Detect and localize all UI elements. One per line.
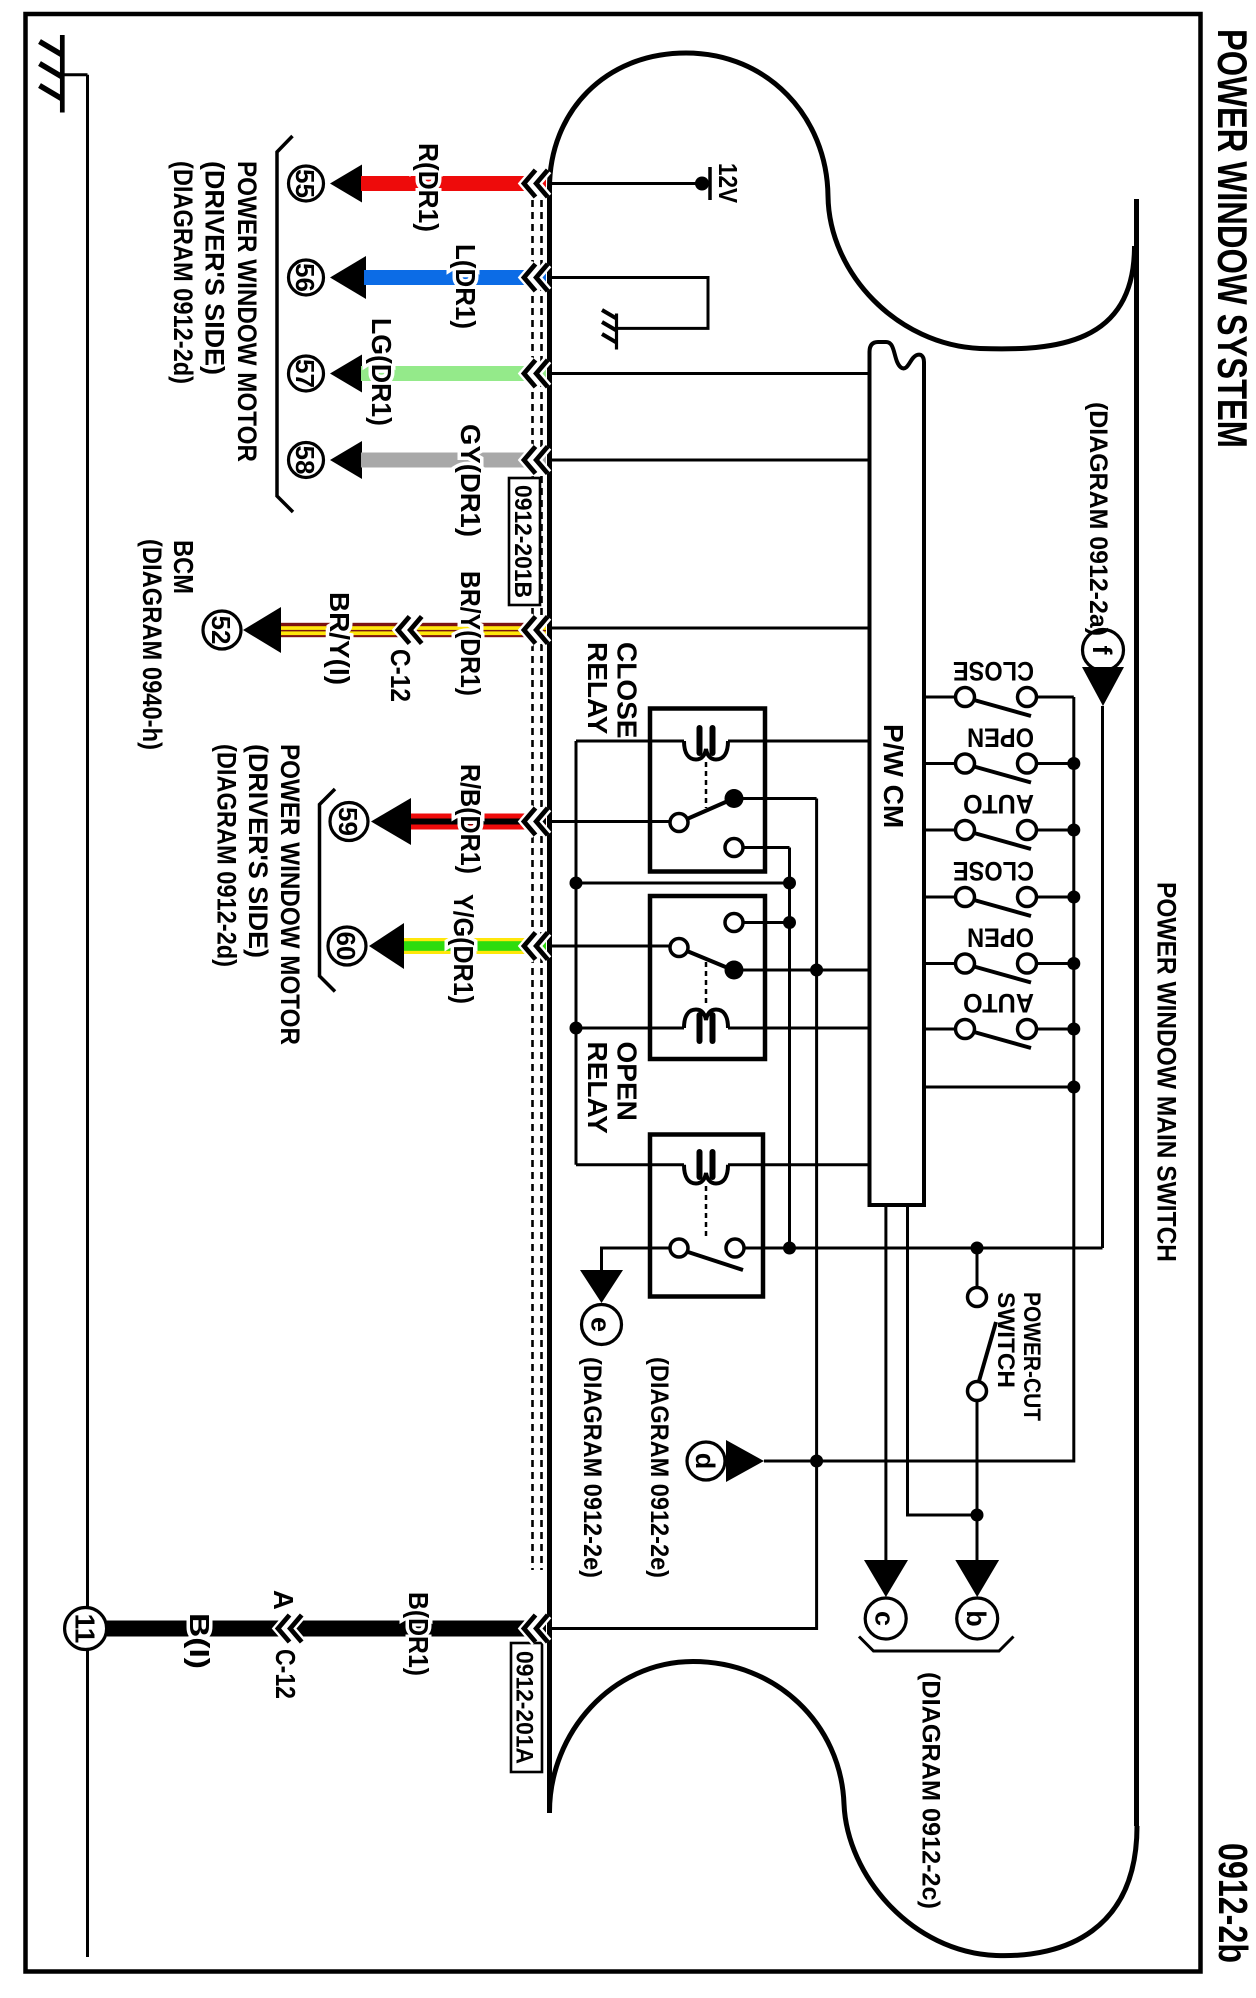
- svg-text:c: c: [870, 1611, 900, 1626]
- wire BR/Y: [281, 623, 546, 637]
- svg-text:(DIAGRAM 0912-2a): (DIAGRAM 0912-2a): [1084, 402, 1112, 636]
- open relay upper contact: [725, 914, 743, 932]
- svg-text:BCM: BCM: [168, 540, 199, 594]
- open relay lever: [687, 951, 728, 968]
- top-left ground symbol: [40, 35, 63, 113]
- wire LG(DR1): [361, 366, 546, 381]
- svg-text:OPEN: OPEN: [967, 923, 1034, 953]
- close relay lever: [687, 801, 728, 819]
- svg-text:BR/Y(I): BR/Y(I): [324, 592, 355, 685]
- open relay coil: [684, 1010, 728, 1029]
- wire R/B: [411, 814, 546, 830]
- svg-text:b: b: [961, 1610, 991, 1627]
- close relay NO lead: [743, 797, 817, 800]
- svg-text:57: 57: [290, 359, 320, 388]
- connector 59: [330, 803, 368, 841]
- svg-text:LG(DR1): LG(DR1): [366, 318, 397, 426]
- wire 58 line to P/W CM: [551, 459, 870, 462]
- ground wire down left side: [62, 73, 88, 76]
- open relay NO contact: [725, 961, 744, 980]
- svg-text:(DIAGRAM 0912-2d): (DIAGRAM 0912-2d): [168, 161, 198, 384]
- svg-text:60: 60: [331, 932, 361, 961]
- circle 11: [65, 1608, 107, 1650]
- svg-text:R/B(DR1): R/B(DR1): [455, 764, 486, 874]
- svg-text:POWER WINDOW MOTOR: POWER WINDOW MOTOR: [275, 744, 305, 1045]
- svg-text:POWER WINDOW MAIN SWITCH: POWER WINDOW MAIN SWITCH: [1152, 882, 1182, 1262]
- third relay left contact: [670, 1239, 688, 1257]
- chevron 56: [524, 264, 548, 291]
- connector 56: [289, 260, 324, 295]
- wire Y/G: [404, 938, 546, 954]
- circle b: [957, 1598, 998, 1639]
- connector 60: [328, 927, 366, 965]
- arrow d: [726, 1440, 764, 1482]
- box 0912-201A: [511, 1643, 542, 1772]
- chevron 58: [524, 447, 548, 474]
- switch CLOSE 1: [924, 656, 1074, 716]
- svg-text:BR/Y(DR1): BR/Y(DR1): [455, 571, 486, 696]
- circle d: [687, 1442, 725, 1480]
- third relay coil: [684, 1165, 728, 1184]
- junction dot: [570, 1022, 583, 1035]
- chevron 59: [524, 808, 548, 835]
- open relay common contact: [670, 939, 688, 957]
- open relay NO lead: [743, 969, 870, 972]
- junction dot d line: [810, 1455, 823, 1468]
- svg-text:AUTO: AUTO: [963, 789, 1034, 819]
- wire L(DR1): [364, 270, 546, 285]
- P/W CM output line 2: [908, 1205, 978, 1515]
- chevron B(DR1) connector: [524, 1615, 548, 1642]
- circle f: [1083, 630, 1124, 671]
- arrow 59: [371, 798, 411, 845]
- svg-text:C-12: C-12: [270, 1649, 301, 1699]
- P/W CM box: [870, 342, 925, 1205]
- svg-text:B(DR1): B(DR1): [403, 1592, 434, 1676]
- svg-text:CLOSE: CLOSE: [953, 656, 1034, 686]
- connector 55: [289, 166, 324, 201]
- wire GY(DR1): [361, 453, 546, 468]
- arrow f: [1082, 667, 1124, 706]
- chevron 60: [524, 933, 548, 960]
- svg-text:RELAY: RELAY: [582, 1042, 613, 1135]
- connector 57: [289, 356, 324, 391]
- arrow 56: [330, 256, 366, 299]
- relay coil bus vertical: [575, 741, 578, 1165]
- third relay box: [650, 1135, 763, 1297]
- chevron 55: [524, 170, 548, 197]
- svg-text:(DIAGRAM 0940-h): (DIAGRAM 0940-h): [137, 539, 167, 750]
- arrow e: [580, 1270, 623, 1303]
- svg-text:A: A: [268, 1590, 299, 1610]
- svg-text:55: 55: [290, 169, 320, 198]
- wire 57 line to P/W CM: [551, 372, 870, 375]
- ground return line B(DR1) internal: [551, 799, 817, 1629]
- connector 52: [203, 611, 241, 649]
- close relay NO contact: [725, 789, 744, 808]
- close relay link dashed: [705, 762, 708, 808]
- close relay NC lead: [743, 846, 790, 849]
- main switch outline right edge: [1134, 199, 1139, 1826]
- open relay box: [650, 896, 765, 1059]
- arrow 60: [369, 923, 404, 969]
- third relay lever: [688, 1252, 743, 1270]
- junction dot: [570, 877, 583, 890]
- wire 52 line to P/W CM: [551, 627, 870, 630]
- third relay right lead / f line horizontal: [744, 1247, 1103, 1250]
- bracket motor 59-60: [320, 789, 336, 992]
- connector dashed line 0912-201: [533, 176, 542, 1570]
- svg-text:P/W CM: P/W CM: [878, 724, 909, 828]
- wire 60 line to open relay common: [551, 945, 670, 948]
- chevron 52 connector: [524, 617, 548, 644]
- switch OPEN 1: [924, 723, 1074, 783]
- svg-text:e: e: [586, 1317, 616, 1332]
- arrow c: [864, 1560, 908, 1597]
- close relay NC contact: [725, 839, 743, 857]
- close relay common contact: [670, 814, 688, 832]
- internal ground symbol: [602, 310, 617, 350]
- third relay coil leads: [576, 1163, 684, 1166]
- svg-text:RELAY: RELAY: [582, 642, 613, 735]
- power-cut switch: [976, 1248, 979, 1288]
- svg-text:C-12: C-12: [385, 649, 416, 702]
- svg-text:R(DR1): R(DR1): [413, 143, 444, 232]
- third relay right contact: [726, 1239, 744, 1257]
- close relay box: [650, 709, 765, 872]
- junction dot: [783, 1242, 796, 1255]
- arrow 55: [330, 165, 362, 203]
- svg-text:59: 59: [333, 807, 363, 836]
- 12V terminal: [695, 177, 709, 191]
- wire B ground: [107, 1621, 546, 1637]
- svg-text:d: d: [690, 1453, 720, 1470]
- bus junction dots: [1067, 757, 1080, 770]
- connector 58: [289, 443, 324, 478]
- switch AUTO 2: [924, 988, 1074, 1048]
- circle e: [582, 1305, 622, 1345]
- svg-text:11: 11: [70, 1614, 101, 1644]
- svg-text:OPEN: OPEN: [967, 723, 1034, 753]
- wire L(DR1) to internal ground: [551, 278, 708, 329]
- bracket motor 55-58: [277, 136, 293, 512]
- svg-text:SWITCH: SWITCH: [992, 1292, 1019, 1388]
- chevron C-12 row52: [398, 617, 422, 644]
- svg-text:f: f: [1087, 646, 1117, 656]
- close relay coil leads: [576, 740, 684, 743]
- open relay link dashed: [705, 962, 708, 1006]
- svg-text:GY(DR1): GY(DR1): [455, 424, 486, 537]
- svg-text:(DIAGRAM 0912-2d): (DIAGRAM 0912-2d): [212, 744, 242, 967]
- chevron 57: [524, 360, 548, 387]
- svg-text:56: 56: [290, 263, 320, 292]
- right bus: [764, 697, 1074, 1461]
- svg-text:CLOSE: CLOSE: [612, 642, 643, 738]
- junction dot: [783, 877, 796, 890]
- svg-text:(DRIVER'S SIDE): (DRIVER'S SIDE): [200, 161, 230, 375]
- svg-text:POWER WINDOW MOTOR: POWER WINDOW MOTOR: [232, 161, 262, 462]
- switch OPEN 2: [924, 923, 1074, 983]
- arrow 52: [243, 607, 281, 653]
- arrow 57: [330, 355, 362, 393]
- arrow b: [955, 1560, 999, 1597]
- box 0912-201B: [509, 478, 540, 605]
- svg-text:0912-201B: 0912-201B: [509, 485, 536, 598]
- arrow 58: [330, 441, 362, 479]
- svg-text:AUTO: AUTO: [963, 988, 1034, 1018]
- third relay left lead to arrow e: [602, 1248, 671, 1272]
- svg-text:POWER WINDOW SYSTEM: POWER WINDOW SYSTEM: [1209, 29, 1256, 448]
- main switch outline left edge: [547, 186, 552, 1813]
- f line vertical: [1101, 706, 1104, 1248]
- svg-text:(DRIVER'S SIDE): (DRIVER'S SIDE): [243, 744, 273, 958]
- svg-text:Y/G(DR1): Y/G(DR1): [448, 894, 479, 1004]
- third relay link dashed: [705, 1186, 708, 1240]
- main switch outline top torn curve: [550, 53, 1135, 349]
- switch CLOSE 2: [924, 856, 1074, 916]
- wire 12V branch: [551, 182, 703, 185]
- svg-text:B(I): B(I): [184, 1613, 215, 1669]
- open relay coil leads: [576, 1027, 684, 1030]
- svg-text:(DIAGRAM 0912-2e): (DIAGRAM 0912-2e): [578, 1357, 606, 1578]
- chevron C-12 row 11: [278, 1615, 302, 1642]
- main switch outline bottom torn curve: [550, 1662, 1138, 1956]
- wire 59 line to close relay common: [551, 820, 671, 823]
- svg-text:58: 58: [290, 446, 320, 475]
- svg-text:L(DR1): L(DR1): [450, 244, 481, 329]
- junction dot: [810, 964, 823, 977]
- P/W CM output line 1 to c: [884, 1205, 887, 1560]
- svg-text:(DIAGRAM 0912-2c): (DIAGRAM 0912-2c): [917, 1672, 945, 1909]
- svg-text:12V: 12V: [713, 163, 743, 204]
- junction dot: [783, 916, 796, 929]
- circle c: [865, 1598, 906, 1639]
- svg-text:OPEN: OPEN: [612, 1042, 643, 1121]
- svg-text:0912-201A: 0912-201A: [511, 1651, 538, 1764]
- link 576-789 horizontal: [576, 882, 790, 885]
- seventh line: [924, 1086, 1074, 1089]
- NC bus vertical: [788, 848, 791, 1249]
- wire R(DR1): [361, 176, 546, 191]
- svg-text:(DIAGRAM 0912-2e): (DIAGRAM 0912-2e): [645, 1357, 673, 1578]
- svg-text:CLOSE: CLOSE: [953, 856, 1034, 886]
- close relay coil: [684, 741, 728, 760]
- svg-text:POWER-CUT: POWER-CUT: [1018, 1292, 1045, 1421]
- svg-text:0912-2b: 0912-2b: [1210, 1843, 1256, 1963]
- bracket c b: [859, 1637, 1014, 1652]
- switch AUTO 1: [924, 789, 1074, 849]
- svg-text:52: 52: [206, 616, 236, 645]
